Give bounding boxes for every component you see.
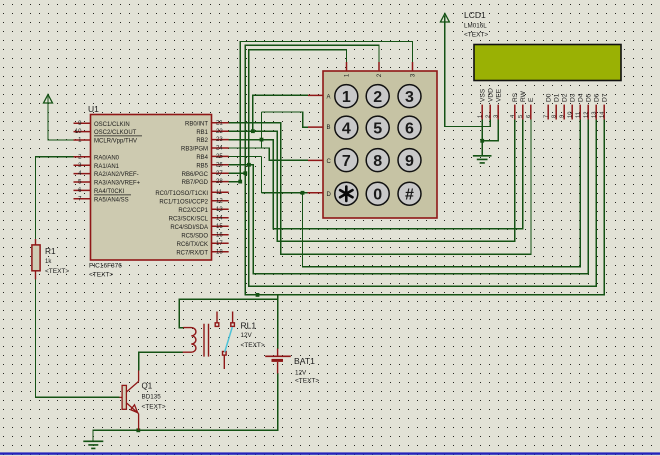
wire keypad row A (253, 95, 308, 131)
wire R1 bottom to Q1 base (36, 279, 120, 397)
battery BAT1 (265, 349, 291, 374)
keypad body (323, 71, 437, 218)
svg-text:2: 2 (486, 115, 492, 118)
svg-text:VEE: VEE (495, 88, 502, 102)
svg-text:3: 3 (405, 89, 414, 106)
wire LCD VDD to power arrow (445, 16, 490, 127)
svg-text:RA3/AN3/VREF+: RA3/AN3/VREF+ (94, 181, 141, 187)
wire battery plus feed (277, 295, 279, 349)
wire keypad col3 (240, 42, 412, 182)
wire RB2 to LCD RW (229, 120, 523, 229)
svg-text:RB7/PGD: RB7/PGD (182, 180, 209, 186)
svg-text:D1: D1 (553, 93, 560, 102)
resistor R1 (32, 239, 70, 279)
keypad buttons (335, 85, 421, 206)
svg-text:8: 8 (373, 153, 382, 170)
svg-text:1: 1 (342, 89, 351, 106)
svg-text:RC1/T1OSI/CCP2: RC1/T1OSI/CCP2 (159, 199, 208, 205)
svg-text:5: 5 (518, 115, 524, 118)
svg-text:RB6/PGC: RB6/PGC (182, 172, 209, 178)
svg-text:D: D (327, 192, 332, 198)
svg-text:22: 22 (216, 129, 223, 135)
svg-text:25: 25 (216, 154, 223, 160)
svg-text:RC7/RX/DT: RC7/RX/DT (176, 250, 208, 256)
node LCD VSS ground junction (480, 139, 484, 143)
wire keypad col1 to LCD D6 (249, 50, 596, 287)
svg-text:2: 2 (373, 89, 382, 106)
microcontroller U1 PIC16F876 body (88, 104, 212, 279)
svg-text:PIC16F876: PIC16F876 (89, 263, 122, 270)
svg-text:BD135: BD135 (142, 393, 162, 400)
svg-text:14: 14 (216, 215, 223, 221)
svg-text:<TEXT>: <TEXT> (464, 32, 488, 39)
svg-text:RA0/AN0: RA0/AN0 (94, 155, 120, 161)
svg-text:12V: 12V (241, 332, 253, 339)
ground near Q1 (83, 441, 103, 448)
svg-text:14: 14 (600, 111, 606, 118)
svg-text:BAT1: BAT1 (294, 356, 315, 366)
node rowA/RB1 junction (251, 129, 255, 133)
svg-text:RB2: RB2 (196, 138, 208, 144)
svg-text:D0: D0 (545, 93, 552, 102)
svg-text:24: 24 (216, 146, 223, 152)
svg-text:9: 9 (560, 115, 566, 118)
keypad column pin stubs (347, 62, 413, 71)
svg-text:5: 5 (373, 120, 382, 137)
wire RB1 to LCD RS (229, 120, 515, 242)
svg-text:13: 13 (592, 112, 598, 118)
svg-text:RC4/SDI/SDA: RC4/SDI/SDA (170, 225, 208, 231)
svg-text:RB4: RB4 (196, 155, 208, 161)
keypad star glyph (340, 187, 352, 201)
LCD pin numbers rotated (478, 111, 606, 118)
keypad button glyphs (342, 89, 414, 204)
node col1/RB5 junction (247, 163, 251, 167)
svg-text:11: 11 (576, 112, 582, 118)
svg-text:B: B (327, 125, 331, 131)
sheet border bottom (blue) (0, 452, 660, 454)
node col2/RB6 junction (243, 171, 247, 175)
wire row D to LCD D4 (303, 120, 581, 267)
svg-text:6: 6 (405, 120, 414, 137)
wire RB4 to row D vertical (229, 156, 262, 158)
svg-text:RB3/PGM: RB3/PGM (181, 147, 208, 153)
U1 right pin labels (155, 121, 208, 256)
svg-text:MCLR/Vpp/THV: MCLR/Vpp/THV (94, 139, 137, 145)
svg-text:1: 1 (478, 115, 484, 118)
svg-text:RC2/CCP1: RC2/CCP1 (178, 208, 208, 214)
relay RL1 (183, 312, 235, 370)
node rowD/D4 junction (301, 191, 305, 195)
svg-text:23: 23 (216, 137, 223, 143)
wire shared vertical upper (261, 112, 263, 148)
wire keypad row D (262, 192, 309, 194)
svg-text:Q1: Q1 (142, 382, 153, 391)
transistor Q1 BD135 (120, 371, 139, 431)
wire RB3 to keypad row C (229, 148, 308, 160)
relay switch blade (225, 327, 233, 352)
svg-text:D6: D6 (593, 93, 600, 102)
svg-text:RC5/SDO: RC5/SDO (181, 233, 208, 239)
svg-text:10: 10 (568, 112, 574, 118)
svg-text:12V: 12V (295, 370, 307, 377)
svg-text:#: # (405, 186, 414, 203)
svg-text:RA4/T0CKI: RA4/T0CKI (94, 189, 125, 195)
coil (183, 328, 196, 353)
power symbol near LCD (440, 14, 449, 23)
svg-text:18: 18 (216, 249, 223, 255)
contact 2 (232, 312, 234, 323)
svg-text:3: 3 (494, 115, 500, 118)
svg-text:12: 12 (584, 112, 590, 118)
LCD1 LM016L (464, 10, 621, 81)
svg-text:<TEXT>: <TEXT> (241, 342, 265, 349)
svg-text:VSS: VSS (479, 88, 486, 102)
U1 left pin labels (94, 122, 142, 204)
keypad row labels (327, 94, 332, 197)
svg-text:RC3/SCK/SCL: RC3/SCK/SCL (169, 216, 209, 222)
svg-text:RC6/TX/CK: RC6/TX/CK (177, 242, 208, 248)
wire RA0 to R1 top (36, 157, 74, 240)
core lines (204, 324, 209, 357)
svg-text:9: 9 (405, 153, 414, 170)
svg-text:E: E (528, 97, 535, 102)
svg-text:<TEXT>: <TEXT> (89, 272, 113, 279)
svg-text:11: 11 (216, 190, 223, 196)
svg-text:RC0/T1OSO/T1CKI: RC0/T1OSO/T1CKI (155, 191, 208, 197)
svg-text:13: 13 (216, 207, 223, 213)
svg-text:C: C (327, 159, 332, 165)
svg-text:LCD1: LCD1 (464, 10, 486, 20)
svg-text:RL1: RL1 (241, 320, 257, 330)
svg-text:4: 4 (342, 120, 351, 137)
svg-text:RB1: RB1 (196, 130, 208, 136)
svg-text:7: 7 (544, 115, 550, 118)
wire RB7 stub (229, 181, 241, 183)
svg-text:RB0/INT: RB0/INT (185, 121, 208, 127)
U1 right pin stubs (212, 123, 229, 252)
ground below LCD (473, 156, 492, 163)
svg-text:RS: RS (512, 92, 519, 102)
svg-text:OSC2/CLKOUT: OSC2/CLKOUT (94, 130, 137, 136)
wire LCD VSS VEE to ground (482, 120, 498, 141)
wire RB6 stub (229, 172, 246, 174)
wire keypad col2 to LCD D7 (245, 45, 604, 295)
svg-text:LM016L: LM016L (464, 23, 487, 30)
svg-text:RW: RW (520, 90, 527, 102)
wire shared vertical lower (261, 157, 263, 193)
wire RB0 to LCD E (229, 120, 531, 255)
node battery feed junction (256, 293, 260, 297)
pole stub (223, 352, 227, 356)
svg-text:D3: D3 (569, 93, 576, 102)
U1 right pin numbers (216, 120, 223, 255)
node Q1 emitter junction (136, 428, 140, 432)
wire VDD power to MCLR pin1 (48, 97, 74, 141)
wire RB5 to LCD D5 (229, 120, 589, 274)
node col3/RB7 junction (238, 180, 242, 184)
wire Q1 collector to coil (139, 352, 183, 370)
svg-text:RA5/AN4/SS: RA5/AN4/SS (94, 197, 129, 203)
svg-text:16: 16 (216, 232, 223, 238)
contact 1 (216, 312, 218, 323)
svg-text:0: 0 (373, 186, 382, 203)
node RB2/shared vertical junction (260, 138, 264, 142)
svg-text:7: 7 (342, 153, 351, 170)
svg-text:RA2/AN2/VREF-: RA2/AN2/VREF- (94, 172, 139, 178)
svg-text:6: 6 (526, 115, 532, 118)
wire keypad row B (262, 112, 309, 127)
svg-text:15: 15 (216, 224, 223, 230)
LCD pin name labels rotated (479, 88, 608, 102)
svg-text:R1: R1 (45, 246, 56, 256)
svg-text:<TEXT>: <TEXT> (142, 403, 166, 410)
svg-text:26: 26 (216, 162, 223, 168)
svg-text:D2: D2 (561, 93, 568, 102)
svg-text:28: 28 (216, 179, 223, 185)
wire battery minus to ground rail (93, 373, 278, 441)
U1 left pin stubs (74, 123, 91, 199)
svg-text:OSC1/CLKIN: OSC1/CLKIN (94, 122, 130, 128)
svg-text:U1: U1 (88, 104, 99, 114)
svg-text:A: A (327, 94, 331, 100)
svg-text:<TEXT>: <TEXT> (295, 377, 319, 384)
keypad column labels (345, 73, 417, 77)
svg-text:RB5: RB5 (196, 163, 208, 169)
U1 left pin numbers (75, 121, 82, 203)
LCD pin stubs (482, 105, 604, 120)
svg-text:12: 12 (216, 198, 223, 204)
svg-text:27: 27 (216, 171, 223, 177)
svg-text:21: 21 (216, 120, 223, 126)
svg-text:VDD: VDD (487, 88, 494, 102)
svg-text:D4: D4 (577, 93, 584, 102)
svg-text:8: 8 (552, 115, 558, 118)
svg-text:10: 10 (75, 129, 82, 135)
svg-text:D7: D7 (601, 93, 608, 102)
wire LCD ground stub (481, 141, 483, 155)
wire relay coil feed (179, 299, 277, 327)
svg-text:D5: D5 (585, 93, 592, 102)
svg-text:RA1/AN1: RA1/AN1 (94, 164, 120, 170)
svg-text:1k: 1k (45, 259, 52, 265)
svg-text:<TEXT>: <TEXT> (45, 268, 69, 275)
power symbol near U1 (44, 95, 53, 104)
svg-text:17: 17 (216, 241, 223, 247)
keypad row pin stubs (308, 95, 324, 192)
